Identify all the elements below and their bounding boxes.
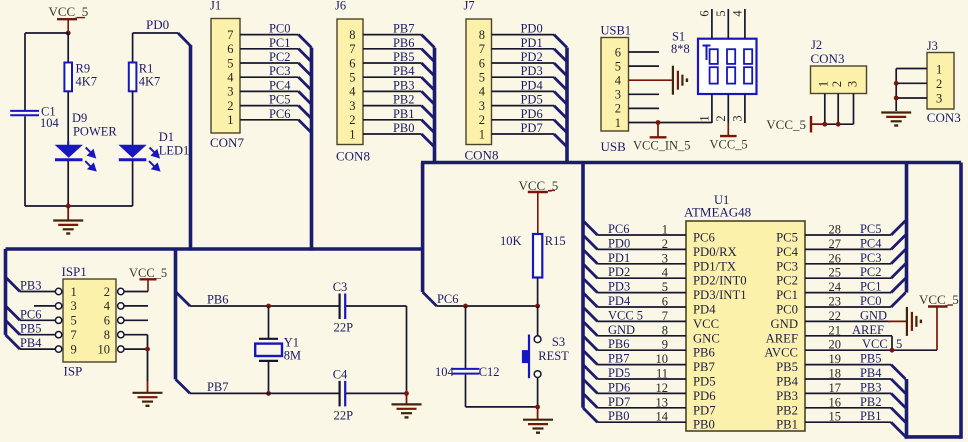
- svg-text:15: 15: [829, 410, 841, 424]
- svg-text:PD1/TX: PD1/TX: [693, 259, 736, 273]
- pin number 4 (S1 top): [731, 10, 745, 17]
- power symbol VCC_5 (S1 pin 2): [710, 123, 748, 152]
- LED D1: [118, 130, 189, 170]
- svg-text:VCC_IN_5: VCC_IN_5: [633, 138, 691, 152]
- ground (ISP): [133, 381, 163, 406]
- bus entry PC1 (right): [891, 278, 905, 292]
- svg-text:22: 22: [829, 309, 841, 323]
- svg-text:J2: J2: [811, 38, 822, 52]
- wire U1 pin 14 net PB0: [597, 409, 686, 424]
- svg-text:PC5: PC5: [860, 222, 882, 236]
- svg-text:GND: GND: [860, 308, 887, 322]
- svg-text:8: 8: [662, 323, 668, 337]
- svg-text:5: 5: [71, 314, 77, 328]
- bus entry PD0: [554, 35, 567, 48]
- wire U1 pin 23 net PC0: [805, 294, 891, 309]
- bus entry PC4 (right): [891, 235, 905, 249]
- bus PD0 vertical: [189, 45, 193, 251]
- bus J1 vertical: [310, 48, 314, 251]
- svg-text:PD3/INT1: PD3/INT1: [693, 288, 747, 302]
- svg-text:4: 4: [662, 266, 669, 280]
- svg-text:GND: GND: [771, 317, 799, 331]
- ic U1 right pin names: [764, 231, 798, 432]
- svg-text:POWER: POWER: [73, 125, 117, 139]
- svg-text:PD7: PD7: [521, 121, 543, 135]
- svg-text:Y1: Y1: [284, 336, 299, 350]
- pin number 5 (S1 top): [714, 10, 728, 16]
- svg-text:PC1: PC1: [860, 280, 882, 294]
- node J3 pin3 junction: [894, 96, 899, 101]
- svg-text:ATMEAG48: ATMEAG48: [684, 205, 751, 220]
- svg-text:6: 6: [479, 56, 485, 70]
- svg-text:PD7: PD7: [693, 403, 716, 417]
- svg-text:PB4: PB4: [860, 366, 882, 380]
- svg-text:2: 2: [104, 285, 110, 299]
- bus MCU section left vertical: [421, 163, 425, 293]
- svg-text:CON8: CON8: [465, 148, 499, 163]
- svg-text:PB6: PB6: [693, 346, 715, 360]
- bus entry PB1: [422, 120, 435, 133]
- wire J7 pin 6 net PD2: [492, 50, 555, 64]
- bus entry PC0 (right): [891, 293, 905, 307]
- svg-text:PB5: PB5: [393, 50, 415, 64]
- wire ISP pin8 to ground rail: [124, 335, 148, 381]
- LED D9: [55, 111, 118, 170]
- svg-text:PB2: PB2: [860, 395, 882, 409]
- wire D9 to ground row: [67, 161, 69, 206]
- bus entry PB2 (right): [891, 408, 905, 422]
- wire J1 pin 7 net PC0: [240, 22, 299, 36]
- svg-text:R1: R1: [139, 62, 154, 76]
- wire VCC row to C1: [25, 32, 68, 34]
- svg-text:PD6: PD6: [608, 380, 630, 394]
- wire U1 pin 4 net PD2: [597, 265, 686, 280]
- svg-text:PC0: PC0: [860, 294, 882, 308]
- svg-text:PB0: PB0: [693, 418, 715, 432]
- wire U1 pin 15 net PB1: [805, 409, 891, 424]
- svg-text:PC4: PC4: [269, 78, 291, 92]
- bus entry PD2: [554, 63, 567, 76]
- svg-text:6: 6: [104, 314, 110, 328]
- svg-text:PB3: PB3: [393, 78, 415, 92]
- svg-text:PB6: PB6: [393, 36, 415, 50]
- svg-text:PD0: PD0: [146, 17, 169, 32]
- resistor R9: [64, 62, 97, 92]
- svg-text:PB6: PB6: [608, 337, 630, 351]
- svg-text:PC4: PC4: [860, 236, 882, 250]
- wire U1 pin 19 net PB5: [805, 352, 891, 367]
- svg-text:3: 3: [936, 91, 942, 105]
- wire U1 pin 18 net PB4: [805, 366, 891, 381]
- wire S1 bottom pin 2: [727, 94, 729, 123]
- node J2 pin1 junction: [822, 122, 827, 127]
- bus right ring right vertical: [959, 163, 963, 439]
- svg-text:8: 8: [349, 28, 355, 42]
- crystal Y1: [255, 336, 301, 363]
- svg-text:4: 4: [731, 10, 745, 17]
- svg-text:3: 3: [615, 88, 621, 102]
- bus entry U1 pin 1: [583, 221, 597, 235]
- bus right ring bottom horizontal: [905, 435, 961, 439]
- svg-text:27: 27: [829, 237, 841, 251]
- svg-text:PD4: PD4: [521, 78, 544, 92]
- svg-text:14: 14: [656, 410, 669, 424]
- wire U1 pin 22 GND: [805, 308, 907, 323]
- wire crystal right vertical: [406, 306, 408, 393]
- bus entry PB3: [422, 91, 435, 104]
- bus entry PC0: [299, 35, 312, 48]
- bus right ring lower vertical: [905, 379, 909, 439]
- bus entry PB3 (right): [891, 393, 905, 407]
- wire J1 pin 3 net PC4: [240, 78, 299, 92]
- node J2 pin2 junction: [836, 122, 841, 127]
- svg-text:PD4: PD4: [608, 294, 631, 308]
- svg-text:PC1: PC1: [776, 288, 798, 302]
- svg-text:VCC: VCC: [693, 317, 719, 331]
- svg-text:PD1: PD1: [608, 251, 630, 265]
- svg-text:PB0: PB0: [608, 409, 630, 423]
- svg-text:AVCC: AVCC: [764, 346, 798, 360]
- wire J7 pin 5 net PD3: [492, 64, 555, 78]
- wire U1 pin 12 net PD6: [597, 380, 686, 395]
- power symbol VCC_IN_5: [633, 123, 691, 153]
- svg-text:GNC: GNC: [693, 331, 720, 345]
- wire J7 pin 3 net PD5: [492, 93, 555, 107]
- bus entry PC6 (ISP): [6, 306, 20, 320]
- power symbol VCC_5 (ISP): [129, 266, 167, 292]
- connector J3 (CON3): [927, 39, 961, 125]
- bus entry PB5: [422, 63, 435, 76]
- wire PC6 row: [437, 305, 538, 307]
- svg-text:PC6: PC6: [437, 292, 459, 306]
- wire C1 top lead: [24, 33, 26, 111]
- svg-text:PC6: PC6: [20, 307, 42, 321]
- svg-text:PB1: PB1: [776, 418, 798, 432]
- wire J6 pin 6 net PB5: [363, 50, 422, 64]
- svg-text:PC5: PC5: [269, 93, 291, 107]
- node ISP pin10 junction: [145, 347, 150, 352]
- wire R9 top lead: [67, 33, 69, 63]
- svg-text:PD5: PD5: [521, 93, 543, 107]
- pins ISP1 right circles: [118, 288, 124, 352]
- svg-text:5: 5: [227, 56, 233, 70]
- wire U1 pin 16 net PB2: [805, 395, 891, 410]
- bus entry PB5 (right): [891, 365, 905, 379]
- wire USB1 pin 5 stub: [629, 65, 660, 67]
- connector ISP1 body: [62, 264, 117, 378]
- wire C12 bottom lead: [465, 375, 467, 407]
- svg-text:PB7: PB7: [608, 352, 630, 366]
- ground (crystal): [392, 393, 422, 417]
- svg-text:PC5: PC5: [776, 231, 798, 245]
- bus entry PC5 (right): [891, 221, 905, 235]
- svg-text:PC3: PC3: [860, 251, 882, 265]
- wire ISP pin5 net PC6: [20, 307, 56, 321]
- svg-text:PC2: PC2: [860, 265, 882, 279]
- svg-text:4: 4: [227, 71, 234, 85]
- bus entry U1 pin 13: [583, 393, 597, 407]
- pin number 1 (S1 bottom): [698, 115, 712, 121]
- power symbol VCC_5 (J2): [766, 116, 811, 133]
- svg-text:3: 3: [349, 99, 355, 113]
- pin number 6 (S1 top): [698, 10, 712, 16]
- wire ISP pin10: [124, 348, 148, 350]
- connector J1 (CON7): [210, 0, 244, 150]
- svg-text:J3: J3: [927, 39, 938, 53]
- bus entry U1 pin 3: [583, 249, 597, 263]
- svg-text:2: 2: [349, 113, 355, 127]
- node PC6/C12 junction: [463, 304, 468, 309]
- wire J2 pin 2: [837, 94, 839, 125]
- svg-text:20: 20: [829, 338, 841, 352]
- wire J7 pin 8 net PD0: [492, 22, 555, 36]
- wire ISP pin4 stub: [124, 305, 148, 307]
- svg-text:17: 17: [829, 381, 841, 395]
- svg-text:7: 7: [349, 42, 355, 56]
- svg-text:2: 2: [830, 81, 844, 87]
- bus J6 vertical: [433, 48, 437, 163]
- bus entry PD0: [178, 33, 191, 46]
- power symbol VCC_5 (top left): [49, 4, 89, 33]
- svg-text:8M: 8M: [284, 348, 301, 362]
- svg-text:C4: C4: [333, 367, 348, 381]
- node S3 ground junction: [535, 405, 540, 410]
- svg-text:PD0: PD0: [608, 236, 630, 250]
- wire U1 pin 27 net PC4: [805, 236, 891, 251]
- wire S1 bottom pin 1: [711, 94, 713, 123]
- svg-text:5: 5: [479, 71, 485, 85]
- node VCC_IN_5 junction: [656, 120, 661, 125]
- svg-text:PD3: PD3: [521, 64, 543, 78]
- svg-text:10: 10: [98, 342, 110, 356]
- svg-text:6: 6: [615, 45, 621, 59]
- svg-text:REST: REST: [538, 349, 569, 363]
- resistor R1: [129, 62, 160, 92]
- wire U1 pin 9 net PB6: [597, 337, 686, 352]
- svg-text:21: 21: [829, 323, 841, 337]
- bus entry PB7: [422, 35, 435, 48]
- wire S1 top pin 6: [711, 9, 713, 39]
- svg-text:VCC_5: VCC_5: [129, 266, 167, 280]
- svg-text:J7: J7: [464, 0, 475, 13]
- bus entry PC3 (right): [891, 249, 905, 263]
- svg-text:6: 6: [349, 56, 355, 70]
- svg-text:2: 2: [662, 237, 668, 251]
- wire USB1 pin 6 stub: [629, 51, 660, 53]
- bus right ring upper vertical: [905, 163, 909, 293]
- bus entry U1 pin 7: [583, 307, 597, 321]
- wire J3 pin 2: [896, 82, 927, 84]
- svg-text:PB7: PB7: [693, 360, 715, 374]
- wire J2 pin 3: [853, 94, 855, 125]
- svg-text:PB0: PB0: [393, 121, 415, 135]
- svg-text:3: 3: [227, 85, 233, 99]
- svg-text:PC4: PC4: [776, 245, 799, 259]
- svg-text:ISP1: ISP1: [62, 264, 87, 279]
- svg-text:PC2: PC2: [776, 274, 798, 288]
- svg-text:7: 7: [662, 309, 668, 323]
- svg-text:PB5: PB5: [20, 322, 42, 336]
- svg-text:PB3: PB3: [20, 279, 42, 293]
- wire D1 to ground row: [132, 161, 134, 206]
- ic U1 left pin names: [693, 231, 747, 432]
- svg-text:1: 1: [817, 81, 831, 87]
- svg-text:22P: 22P: [334, 408, 353, 422]
- svg-text:8*8: 8*8: [671, 42, 690, 56]
- svg-text:PC0: PC0: [776, 303, 798, 317]
- wire J7 pin 4 net PD4: [492, 78, 555, 92]
- bus entry U1 pin 9: [583, 336, 597, 350]
- bus entry U1 pin 8: [583, 321, 597, 335]
- svg-text:PC1: PC1: [269, 36, 291, 50]
- svg-text:22P: 22P: [334, 321, 353, 335]
- svg-text:USB1: USB1: [601, 23, 632, 37]
- svg-text:PC6: PC6: [269, 107, 291, 121]
- bus entry PC6 (left): [423, 292, 437, 306]
- connector J6 (CON8): [335, 0, 370, 163]
- bus entry U1 pin 11: [583, 365, 597, 379]
- svg-text:104: 104: [435, 365, 454, 379]
- svg-text:PD0/RX: PD0/RX: [693, 245, 737, 259]
- wire Y1 bottom lead: [268, 362, 270, 394]
- svg-text:5: 5: [714, 10, 728, 16]
- bus entry PB6: [422, 49, 435, 62]
- wire U1 pin 8 net GND: [597, 323, 686, 338]
- bus J7 vertical: [565, 48, 569, 163]
- wire J1 pin 1 net PC6: [240, 107, 299, 121]
- wire USB1 pin 3 stub: [629, 93, 660, 95]
- wire J6 pin 5 net PB4: [363, 64, 422, 78]
- svg-text:PB1: PB1: [860, 409, 882, 423]
- svg-text:3: 3: [731, 115, 745, 121]
- svg-text:C3: C3: [333, 280, 348, 294]
- wire U1 pin 7 net VCC_5: [597, 308, 686, 323]
- wire S3 top lead: [537, 306, 539, 336]
- bus entry PD1: [554, 49, 567, 62]
- wire U1 pin 28 net PC5: [805, 222, 891, 237]
- svg-text:1: 1: [349, 127, 355, 141]
- wire J3 common vertical: [895, 69, 897, 112]
- svg-text:11: 11: [656, 367, 668, 381]
- switch S3 REST: [522, 335, 569, 379]
- bus entry PD3: [554, 77, 567, 90]
- svg-text:10K: 10K: [500, 234, 521, 248]
- svg-text:4: 4: [349, 85, 356, 99]
- svg-text:2: 2: [479, 113, 485, 127]
- wire J1 pin 2 net PC5: [240, 93, 299, 107]
- svg-text:1: 1: [227, 113, 233, 127]
- svg-text:PD0: PD0: [521, 22, 543, 36]
- svg-text:PC6: PC6: [608, 222, 630, 236]
- wire R9 to D9: [67, 91, 69, 145]
- svg-text:2: 2: [615, 102, 621, 116]
- bus entry PB3 (ISP): [6, 277, 20, 291]
- bus entry PB0: [422, 134, 435, 147]
- wire ISP pin2 to VCC: [124, 291, 148, 293]
- wire U1 pin 10 net PB7: [597, 352, 686, 367]
- bus entry PC6: [299, 120, 312, 133]
- connector J7 (CON8): [464, 0, 499, 163]
- svg-text:PD2: PD2: [521, 50, 543, 64]
- ground (S3/C12): [523, 407, 553, 433]
- node J3 pin2 junction: [894, 81, 899, 86]
- svg-text:1: 1: [698, 115, 712, 121]
- svg-text:VCC_5: VCC_5: [710, 138, 748, 152]
- wire J2 pin 1: [824, 94, 826, 125]
- dip switch S1 8*8: [671, 30, 757, 94]
- resistor R15: [500, 234, 566, 278]
- bus entry PB4: [422, 77, 435, 90]
- svg-text:PB2: PB2: [776, 403, 798, 417]
- bus entry U1 pin 4: [583, 264, 597, 278]
- bus entry U1 pin 6: [583, 293, 597, 307]
- bus entry PB4 (ISP): [6, 335, 20, 349]
- wire J6 pin 3 net PB2: [363, 93, 422, 107]
- bus entry U1 pin 5: [583, 278, 597, 292]
- wire U1 pin 20 VCC_5: [805, 337, 937, 352]
- svg-text:CON3: CON3: [811, 51, 845, 66]
- bus entry PC1: [299, 49, 312, 62]
- svg-text:3: 3: [845, 81, 859, 87]
- svg-text:19: 19: [829, 352, 841, 366]
- bus entry PC4: [299, 91, 312, 104]
- svg-text:2: 2: [936, 77, 942, 91]
- svg-text:PB7: PB7: [393, 22, 415, 36]
- svg-text:16: 16: [829, 395, 841, 409]
- svg-text:10: 10: [656, 352, 668, 366]
- svg-text:PB3: PB3: [776, 389, 798, 403]
- bus entry PD6: [554, 120, 567, 133]
- svg-text:PC0: PC0: [269, 22, 291, 36]
- svg-text:2: 2: [227, 99, 233, 113]
- wire U1 pin 2 net PD0: [597, 236, 686, 251]
- bus entry U1 pin 14: [583, 408, 597, 422]
- svg-text:6: 6: [662, 295, 668, 309]
- wire PB7 row: [190, 380, 407, 394]
- wire PB6 row: [190, 293, 407, 307]
- wire bottom row C1-D1: [25, 205, 133, 207]
- svg-text:PB5: PB5: [776, 360, 798, 374]
- svg-text:PD3: PD3: [608, 280, 630, 294]
- svg-text:CON7: CON7: [210, 135, 244, 150]
- bus entry U1 pin 10: [583, 350, 597, 364]
- svg-text:12: 12: [656, 381, 668, 395]
- svg-text:1: 1: [662, 223, 668, 237]
- wire R1 to D1: [132, 91, 134, 145]
- pins ISP1 left circles: [55, 288, 61, 352]
- net label PC6 (reset): [437, 292, 459, 306]
- svg-text:4: 4: [479, 85, 486, 99]
- bus entry PB2: [422, 106, 435, 119]
- svg-text:2: 2: [714, 115, 728, 121]
- svg-text:PC3: PC3: [776, 259, 798, 273]
- bus trunk horizontal y=249: [6, 247, 423, 251]
- svg-text:6: 6: [698, 10, 712, 16]
- svg-text:GND: GND: [608, 323, 635, 337]
- ic U1 ATMEAG48 body: [684, 193, 805, 431]
- svg-text:26: 26: [829, 251, 841, 265]
- svg-text:8: 8: [104, 328, 110, 342]
- svg-text:PB4: PB4: [20, 336, 42, 350]
- svg-text:J6: J6: [335, 0, 346, 13]
- svg-text:PB4: PB4: [776, 375, 799, 389]
- svg-text:13: 13: [656, 395, 668, 409]
- svg-text:PC3: PC3: [269, 64, 291, 78]
- node Y1 top junction: [266, 304, 271, 309]
- wire J6 pin 7 net PB6: [363, 36, 422, 50]
- wire J6 pin 2 net PB1: [363, 107, 422, 121]
- svg-text:PB7: PB7: [207, 380, 229, 394]
